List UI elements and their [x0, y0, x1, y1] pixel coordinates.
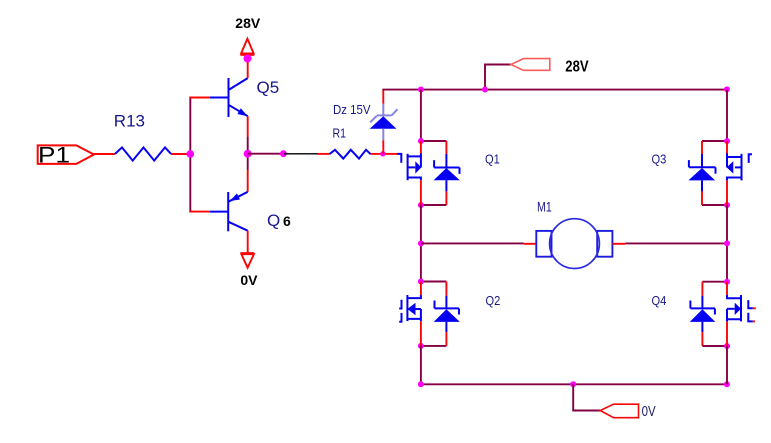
node Q3 drain junction — [724, 138, 730, 144]
wire Q6 collector to 0V — [247, 231, 249, 253]
wire Q4 loop top — [702, 281, 727, 283]
wire net to R1 — [284, 153, 318, 155]
svg-text:M1: M1 — [537, 198, 552, 214]
transistor Q1 — [397, 141, 421, 205]
svg-text:Dz 15V: Dz 15V — [333, 102, 371, 117]
wire Q2 loop bottom — [421, 345, 447, 347]
wire junction to Q1 gate — [383, 153, 397, 155]
wire top rail 28V — [382, 89, 727, 91]
node Q1 drain junction — [418, 138, 424, 144]
node rail right corner — [724, 86, 730, 92]
node Q3 source junction — [724, 202, 730, 208]
wire right main vertical lower — [726, 346, 728, 384]
svg-text:28V: 28V — [565, 58, 589, 75]
transistor Q2 — [399, 282, 421, 346]
transistor Q4 — [727, 282, 756, 346]
transistor Q3 — [727, 141, 752, 205]
resistor R1 — [329, 150, 370, 159]
diode Q2 body zener — [434, 282, 460, 346]
transistor Q5 — [210, 78, 248, 117]
node motor left junction — [418, 240, 424, 246]
svg-text:Q2: Q2 — [486, 293, 501, 308]
svg-text:R1: R1 — [333, 126, 347, 141]
wire 28V port stem — [485, 65, 511, 90]
node rail bottom right corner — [724, 381, 730, 387]
wire R13 to base node — [171, 153, 190, 155]
wire R1 left lead — [318, 153, 330, 155]
wire motor left lead — [524, 243, 537, 245]
wire motor right lead — [612, 243, 625, 245]
node Q4 drain junction — [724, 279, 730, 285]
wire Q5 emitter down — [247, 116, 249, 137]
svg-text:Q4: Q4 — [652, 293, 667, 308]
wire Q1 loop top — [421, 140, 447, 142]
svg-text:Q: Q — [267, 211, 280, 230]
svg-text:Q5: Q5 — [257, 78, 280, 97]
node R1 zener junction — [380, 151, 385, 156]
node base junction — [187, 150, 195, 158]
svg-text:0V: 0V — [642, 404, 656, 420]
wire base bus vertical — [189, 97, 191, 213]
wire 0V port stem — [573, 384, 600, 410]
wire Q5 base lead — [189, 97, 209, 99]
zener diode Dz — [370, 90, 398, 154]
svg-text:28V: 28V — [235, 15, 261, 31]
wire right main vertical upper — [726, 90, 728, 141]
node Q4 source junction — [724, 343, 730, 349]
node Q2 source junction — [418, 343, 424, 349]
node Q2 drain junction — [418, 279, 424, 285]
power arrow 28V — [240, 39, 254, 55]
motor M1 — [536, 219, 612, 269]
wire output node vertical — [247, 137, 249, 170]
wire Q5 collector to 28V — [247, 59, 249, 78]
wire Q3 loop top — [702, 140, 727, 142]
svg-text:6: 6 — [283, 213, 291, 229]
node Q1 source junction — [418, 202, 424, 208]
wire left main vertical mid — [420, 205, 422, 282]
port P1 — [38, 145, 94, 164]
wire bottom rail 0V — [421, 383, 727, 385]
wire Q6 base lead — [189, 211, 210, 213]
wire R1 right lead — [371, 153, 383, 155]
diode Q4 body zener — [690, 282, 716, 346]
resistor R13 — [115, 147, 171, 160]
wire Q6 emitter up — [247, 170, 249, 192]
port 0V — [600, 404, 638, 418]
node wire junction — [280, 150, 287, 157]
wire motor row right — [625, 242, 727, 244]
node output junction — [244, 150, 252, 158]
wire P1 to R13 — [93, 153, 115, 155]
transistor Q6 — [210, 192, 248, 232]
wire right main vertical mid — [726, 205, 728, 282]
wire Q2 loop top — [421, 281, 447, 283]
wire left main vertical upper — [420, 90, 422, 141]
node motor right junction — [724, 240, 730, 246]
svg-text:P1: P1 — [38, 143, 70, 168]
node rail bottom left corner — [418, 381, 424, 387]
svg-text:Q1: Q1 — [485, 152, 500, 167]
wire Q3 loop bottom — [702, 204, 727, 206]
port 28V — [511, 59, 550, 71]
svg-text:Q3: Q3 — [652, 152, 667, 167]
wire motor row left — [421, 242, 524, 244]
node rail left junction — [418, 87, 424, 93]
diode Q1 body zener — [434, 141, 460, 205]
wire left main vertical lower — [420, 346, 422, 384]
svg-text:0V: 0V — [240, 272, 258, 288]
diode Q3 body zener — [688, 141, 715, 205]
wire Q4 loop bottom — [702, 345, 727, 347]
node rail port junction — [482, 87, 488, 93]
node rail 0V junction — [570, 381, 576, 387]
svg-text:R13: R13 — [114, 111, 145, 130]
ground arrow 0V — [240, 253, 254, 268]
node 28V arrow junction — [244, 55, 252, 63]
wire Q1 loop bottom — [421, 204, 447, 206]
wire output horizontal — [248, 153, 284, 155]
